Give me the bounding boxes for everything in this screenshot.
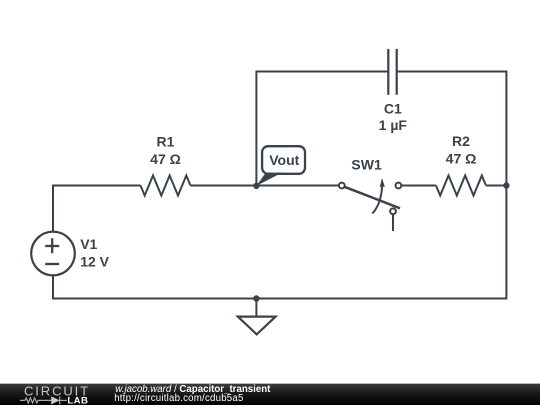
- ground: [238, 317, 276, 335]
- wire C1 right plate, right rail, bottom rail to V1 bottom: [53, 72, 506, 299]
- svg-text:1 µF: 1 µF: [379, 117, 408, 133]
- label V1: [80, 236, 109, 269]
- svg-text:V1: V1: [80, 236, 97, 252]
- wire R2 to right rail: [486, 185, 506, 187]
- footer text: [115, 385, 270, 395]
- svg-text:Vout: Vout: [269, 152, 299, 168]
- svg-text:R1: R1: [157, 134, 175, 150]
- node label Vout callout: [256, 146, 305, 186]
- switch arrowhead: [380, 178, 385, 187]
- label C1: [379, 101, 408, 134]
- svg-text:47 Ω: 47 Ω: [446, 151, 477, 167]
- resistor R2: [436, 176, 486, 196]
- svg-text:LAB: LAB: [67, 395, 88, 405]
- wire R1 to node Vout: [191, 185, 257, 187]
- footer bar: [0, 383, 540, 405]
- switch SW1: [339, 183, 401, 231]
- label R2: [446, 133, 477, 167]
- svg-text:47 Ω: 47 Ω: [150, 151, 181, 167]
- junction ground: [253, 295, 259, 301]
- label R1: [150, 134, 181, 167]
- wire left rail: V1 top to middle row to R1: [53, 186, 141, 232]
- svg-text:SW1: SW1: [351, 157, 382, 173]
- voltage source V1: [31, 232, 75, 276]
- junction right rail / R2: [503, 182, 509, 188]
- node A (Vout) junction dot: [253, 183, 259, 189]
- wire node to switch pole: [256, 185, 339, 187]
- CircuitLab logo: [0, 384, 120, 405]
- wire node up and top row to C1 left plate: [256, 72, 388, 186]
- resistor R1: [141, 176, 191, 196]
- wire switch throw to R2: [401, 185, 436, 187]
- svg-text:R2: R2: [452, 133, 470, 149]
- svg-text:12 V: 12 V: [80, 253, 109, 269]
- svg-text:C1: C1: [384, 101, 402, 117]
- capacitor C1: [388, 49, 396, 95]
- wire ground stub: [255, 299, 257, 317]
